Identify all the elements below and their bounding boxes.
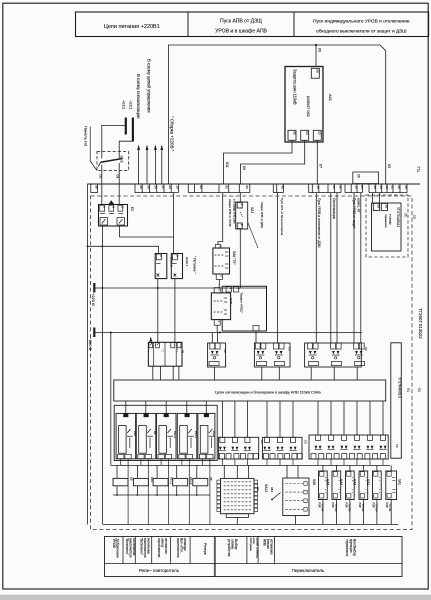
- wire 09 from pin 04: [241, 140, 305, 184]
- svg-text:Х6: Х6: [373, 185, 377, 189]
- wire 011 from pin 06: [224, 140, 293, 184]
- svg-text:и в шкаф АПВ шин: и в шкаф АПВ шин: [233, 199, 237, 224]
- svg-text:К8: К8: [209, 477, 213, 481]
- switch B2 Запрет АПВ2 group: [222, 286, 266, 331]
- svg-text:02: 02: [391, 185, 395, 189]
- relay coil К10: [133, 465, 153, 495]
- coil collector wire: [113, 494, 210, 496]
- svg-text:Переключатель: Переключатель: [292, 568, 325, 573]
- switch SA2: [366, 465, 381, 524]
- wire SA8 bottom: [216, 325, 218, 332]
- function table: [105, 537, 403, 577]
- svg-text:ТГ2607 013022: ТГ2607 013022: [418, 308, 423, 339]
- busbar -EC1: [128, 100, 133, 142]
- diode block У3: [254, 343, 291, 367]
- svg-text:Х6: Х6: [377, 204, 381, 208]
- vertical column box: [391, 343, 402, 458]
- terminal strip XT: [87, 184, 420, 193]
- svg-text:08: 08: [181, 350, 185, 354]
- wire 02: [98, 171, 102, 205]
- svg-text:”..”: ”..”: [175, 349, 179, 352]
- svg-text:−ЕС1: −ЕС1: [128, 100, 132, 110]
- svg-text:24: 24: [154, 185, 158, 189]
- svg-text:У3: У3: [304, 440, 308, 444]
- svg-text:ТГ2704И013: ТГ2704И013: [398, 377, 402, 398]
- switch SA8 Запрет АПВ2: [211, 288, 233, 326]
- relay contact К10: [116, 413, 137, 524]
- svg-text:У1: У1: [417, 388, 421, 392]
- svg-text:У2: У2: [412, 215, 416, 219]
- bottom bus wire: [103, 524, 398, 526]
- svg-text:20: 20: [168, 185, 172, 189]
- relay contact К11.1: [177, 413, 198, 524]
- svg-text:02: 02: [338, 185, 342, 189]
- wire to SA9 top: [218, 193, 223, 245]
- svg-text:44: 44: [245, 185, 249, 189]
- svg-text:16: 16: [355, 185, 359, 189]
- wire SA10.1 top: [172, 193, 174, 254]
- relay contact К9: [136, 413, 157, 524]
- svg-text:+220 В: +220 В: [91, 293, 96, 306]
- +220V rail: [91, 283, 266, 306]
- wires junction box to relay row: [126, 401, 383, 437]
- wire left vertical: [87, 184, 89, 525]
- svg-text:терминала: терминала: [384, 214, 387, 228]
- svg-text:45: 45: [199, 185, 203, 189]
- wire long Пуск ЭУ1: [278, 193, 285, 343]
- svg-text:+ЕС1: +ЕС1: [121, 100, 125, 110]
- svg-text:Пуск индивидуального УРОВ и от: Пуск индивидуального УРОВ и отключение: [313, 19, 410, 25]
- svg-text:SA1: SA1: [397, 479, 401, 485]
- svg-text:в шкафу: в шкафу: [389, 214, 393, 225]
- wires У2 bottom: [310, 367, 312, 380]
- svg-text:У2: У2: [395, 444, 399, 448]
- svg-text:03: 03: [387, 164, 391, 168]
- switch SA10.2 / SA10.1 Питание: [155, 254, 196, 279]
- svg-text:К12: К12: [212, 431, 216, 436]
- svg-text:SA6: SA6: [312, 479, 316, 485]
- svg-text:У2: У2: [364, 347, 368, 351]
- svg-text:А61: А61: [328, 94, 333, 101]
- svg-text:28: 28: [139, 185, 143, 189]
- svg-text:06: 06: [292, 131, 296, 135]
- svg-text:Запрет АПВ от УРОВ: Запрет АПВ от УРОВ: [228, 199, 232, 227]
- svg-text:Цепи сигнализации и блокировки: Цепи сигнализации и блокировки в шкафу А…: [215, 391, 321, 395]
- header table: [76, 12, 429, 37]
- svg-text:05: 05: [357, 174, 361, 178]
- circuit breaker SF3: [97, 152, 129, 171]
- svg-text:Х6: Х6: [385, 185, 389, 189]
- wire B2 bottom to У3: [255, 331, 257, 343]
- svg-text:−220 В: −220 В: [88, 338, 93, 351]
- svg-text:SA5: SA5: [326, 479, 330, 485]
- wire +EC1 to SF3: [102, 125, 126, 151]
- bottom scan band: [0, 595, 431, 600]
- svg-text:Х3: Х3: [256, 487, 260, 491]
- switch SA3: [353, 465, 368, 524]
- svg-text:В схему цепей управления: В схему цепей управления: [147, 59, 152, 113]
- wire -EC1 to SF3: [119, 141, 133, 151]
- svg-text:SA8: SA8: [229, 298, 233, 304]
- cables to signal/control circuits: [136, 59, 163, 184]
- svg-text:02: 02: [318, 131, 322, 135]
- svg-text:Резерв: Резерв: [203, 543, 207, 555]
- svg-text:” Питание ”: ” Питание ”: [192, 256, 196, 274]
- svg-text:Цепи питания +220В1: Цепи питания +220В1: [104, 24, 160, 30]
- wires diode rows to bus: [222, 459, 383, 465]
- wire 07 from pin 02: [317, 140, 322, 184]
- svg-text:обходного выключателя от защит: обходного выключателя от защит и ДЗШ: [316, 29, 406, 35]
- svg-text:Пуск АПВ от ДЗЩ: Пуск АПВ от ДЗЩ: [220, 19, 262, 25]
- svg-text:SA7: SA7: [250, 207, 254, 214]
- svg-text:компл. АТ: компл. АТ: [357, 198, 361, 213]
- svg-text:18: 18: [316, 185, 320, 189]
- relay row outer frame: [114, 405, 217, 460]
- svg-text:SA9 ”ТУ”: SA9 ”ТУ”: [232, 251, 236, 264]
- wire SA10.2 bottom: [157, 279, 159, 343]
- relay coil К11.1: [153, 465, 173, 495]
- relay A61 Защита шин 110кВ: [285, 67, 333, 143]
- svg-text:К9: К9: [129, 477, 133, 481]
- svg-text:SA3: SA3: [353, 479, 357, 485]
- svg-text:К11.2: К11.2: [173, 431, 177, 438]
- svg-text:05: 05: [360, 185, 364, 189]
- diode block У2: [305, 343, 368, 367]
- switch SA13: [264, 465, 309, 524]
- wire Сборка +220В loop: [169, 45, 386, 184]
- svg-text:26: 26: [146, 185, 150, 189]
- diode block У6: [262, 437, 307, 459]
- switch SA1: [385, 465, 401, 524]
- svg-text:Х6: Х6: [385, 204, 389, 208]
- wires from block 08 to junction row: [153, 366, 179, 380]
- svg-text:03: 03: [332, 185, 336, 189]
- svg-text:У1: У1: [406, 388, 410, 392]
- switch SA6: [312, 465, 327, 524]
- svg-text:”..”: ”..”: [160, 349, 164, 352]
- svg-text:ЭБ1: ЭБ1: [270, 487, 274, 493]
- svg-text:К11.1: К11.1: [194, 431, 198, 438]
- wire bundle to block У2: [316, 193, 361, 343]
- svg-text:04: 04: [379, 185, 383, 189]
- svg-text:У4: У4: [223, 349, 227, 353]
- -220V rail: [88, 328, 362, 351]
- busbar +EC1: [121, 100, 126, 135]
- junction dots: [101, 44, 317, 334]
- svg-text:Сигнализация: Сигнализация: [332, 198, 336, 219]
- svg-text:У3: У3: [287, 347, 291, 351]
- wire SA9 to SA8: [218, 280, 220, 288]
- svg-text:43: 43: [224, 185, 228, 189]
- wire left vertical 2: [110, 333, 112, 466]
- svg-text:ШЗВ07 062: ШЗВ07 062: [306, 96, 311, 118]
- svg-text:03: 03: [317, 48, 321, 52]
- svg-text:Пуск УРОВ от защит: Пуск УРОВ от защит: [352, 198, 356, 229]
- svg-text:” Сборка +220В ”: ” Сборка +220В ”: [169, 116, 174, 152]
- diode block У4: [208, 343, 228, 367]
- svg-text:08: 08: [316, 69, 320, 73]
- wires У4 block: [212, 333, 217, 381]
- svg-text:Запрет АПВ от ДЗШ: Запрет АПВ от ДЗШ: [260, 202, 264, 228]
- svg-text:02: 02: [98, 175, 102, 179]
- svg-text:06: 06: [397, 185, 401, 189]
- wires У3 bottom: [261, 367, 263, 380]
- relay coil К9: [113, 465, 133, 495]
- svg-text:SA4: SA4: [339, 479, 343, 485]
- wire 03 from A61 pin 08: [316, 45, 321, 67]
- svg-text:07: 07: [319, 164, 323, 168]
- svg-text:08: 08: [404, 185, 408, 189]
- svg-text:В схему сигнализации: В схему сигнализации: [136, 74, 141, 119]
- wire SA10.1 bottom: [174, 279, 176, 343]
- switch SA7: [228, 199, 264, 248]
- svg-text:011: 011: [225, 162, 229, 168]
- dashed box У1 terminal unit: [366, 193, 416, 257]
- relay contact К12: [198, 413, 216, 524]
- svg-text:09: 09: [242, 166, 246, 170]
- svg-text:36: 36: [95, 185, 99, 189]
- svg-text:ТГ2704И022: ТГ2704И022: [396, 207, 400, 227]
- svg-text:Реле− повторитель: Реле− повторитель: [139, 568, 180, 573]
- diode block У5: [218, 437, 264, 459]
- link 05: [353, 172, 379, 184]
- svg-text:Защита шин 110кВ: Защита шин 110кВ: [293, 69, 298, 105]
- relay contact К11.2: [157, 413, 178, 524]
- svg-text:Е2: Е2: [130, 207, 134, 211]
- svg-text:Пуск ЭУ1 от блок-контактов: Пуск ЭУ1 от блок-контактов: [280, 198, 284, 236]
- relay coil К11.2: [173, 465, 193, 495]
- svg-text:SA10.2: SA10.2: [169, 257, 173, 267]
- wire SA7 top: [239, 193, 241, 203]
- svg-text:SA13: SA13: [264, 484, 268, 492]
- svg-text:ТТ1: ТТ1: [416, 166, 420, 172]
- horizontal bus wire: [111, 464, 390, 466]
- label Панель Н3: [83, 126, 97, 171]
- svg-text:18: 18: [175, 185, 179, 189]
- svg-text:49: 49: [281, 185, 285, 189]
- junction box row: [114, 380, 386, 401]
- switch SA5: [326, 465, 341, 524]
- svg-text:У1: У1: [404, 213, 408, 217]
- contact block 08: [148, 342, 184, 366]
- svg-text:УРОВ и в шкафе АПВ: УРОВ и в шкафе АПВ: [215, 29, 267, 35]
- wire E2 right pin to SA10.1: [120, 226, 174, 237]
- svg-text:01: 01: [116, 175, 120, 179]
- repeater block E2: [99, 200, 135, 226]
- svg-text:22: 22: [161, 185, 165, 189]
- svg-text:Пуск УРОВ и отключение от ДЗШ: Пуск УРОВ и отключение от ДЗШ: [317, 198, 321, 247]
- svg-text:Панель Н3: Панель Н3: [83, 126, 88, 147]
- connector ШУ: [217, 465, 260, 524]
- diode block У1 wide: [309, 435, 388, 459]
- wire from E2 down: [87, 226, 159, 525]
- svg-text:SA2: SA2: [366, 479, 370, 485]
- svg-text:”Запрет АПВ2”: ”Запрет АПВ2”: [240, 292, 244, 313]
- switch SA4: [339, 465, 354, 524]
- svg-text:SA10.1: SA10.1: [185, 257, 189, 267]
- relay coil К8: [193, 465, 213, 495]
- svg-text:04: 04: [305, 131, 309, 135]
- wire 01: [116, 171, 120, 205]
- wire SA7 bottom: [239, 229, 241, 288]
- switch SA9: [213, 245, 236, 280]
- panel dashed boundary: [91, 196, 413, 530]
